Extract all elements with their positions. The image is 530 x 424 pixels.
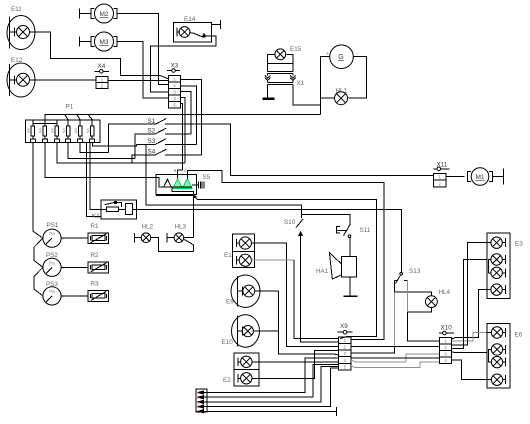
wire S3 left stub	[136, 143, 155, 145]
svg-text:a: a	[174, 168, 177, 174]
switch S13 contact top	[400, 272, 403, 275]
ground at HA1	[343, 295, 357, 297]
wire X1 right leg	[293, 85, 321, 106]
wire X3 pin3 to S2	[180, 92, 191, 134]
connector X10	[440, 337, 452, 363]
wire S3 to S10	[146, 144, 302, 218]
svg-text:G: G	[338, 54, 343, 61]
wire fuse F1 to gauges	[33, 142, 43, 238]
wire X11 to M1	[446, 176, 464, 178]
wire HL3 right	[184, 237, 194, 239]
wire X3 pin2 to S3	[180, 86, 196, 144]
svg-text:P1: P1	[66, 104, 74, 111]
svg-text:E10: E10	[222, 339, 234, 346]
wire X3 pin5 to S5	[178, 104, 183, 179]
wire S11 to horn	[349, 238, 351, 257]
connector X4 locator	[95, 70, 109, 72]
lamp unit E14 box	[174, 22, 212, 42]
connector prong left at S13	[393, 292, 395, 346]
wire X10 pin2 to E3 lamp2	[452, 260, 487, 349]
fuse box P1	[26, 120, 101, 143]
wire S13 to HL4	[394, 280, 431, 295]
wire S5 down to HL3	[192, 194, 194, 237]
connector X3	[169, 75, 181, 108]
wire E12 to X4	[30, 79, 97, 81]
triangle indicator 2 green	[173, 179, 182, 188]
fuse internal jumper	[33, 123, 57, 125]
svg-text:HL3: HL3	[175, 223, 187, 230]
relay K1 resistor	[106, 207, 118, 211]
S5 internal wiring	[156, 177, 163, 187]
svg-text:8A: 8A	[73, 128, 78, 133]
wire E14 terminal	[212, 24, 221, 26]
lamp HL3	[166, 233, 168, 243]
switch S11 blade	[344, 224, 351, 236]
ground at X1	[262, 97, 274, 100]
svg-text:S11: S11	[360, 227, 371, 234]
wire S1 left	[109, 124, 156, 152]
wire S5 triangle3 to X9	[187, 170, 384, 339]
gauge PS1	[43, 229, 61, 247]
wire PS1 to R1	[61, 237, 88, 239]
svg-text:Pa: Pa	[49, 260, 55, 265]
svg-text:HA1: HA1	[316, 268, 329, 275]
svg-text:E2: E2	[223, 377, 231, 384]
svg-text:8A: 8A	[61, 128, 66, 133]
harness wire 1 to X9	[203, 358, 339, 393]
headlight E10	[232, 315, 260, 347]
lamp unit E1 box	[233, 234, 255, 267]
svg-text:M1: M1	[475, 174, 484, 181]
resistor R1	[88, 233, 109, 244]
wire X3 pin1 to S4	[180, 79, 201, 155]
connector X1 plug arrows	[265, 75, 296, 80]
switch S10 blade	[296, 219, 303, 228]
jumper to fuse F6	[88, 115, 92, 120]
terminal M1 right	[492, 176, 503, 178]
wire S5 lever to X9 pin1	[197, 200, 376, 339]
lamp cluster E6 box	[487, 323, 510, 388]
wire PS2 to R2	[61, 266, 88, 268]
wire S1 right to X11	[165, 124, 433, 175]
wire bus P1 to generator	[45, 115, 321, 120]
harness wire 5 terminal	[203, 410, 337, 412]
lamp E15	[275, 49, 286, 60]
lamp E3-2	[491, 254, 502, 265]
motor M1	[471, 168, 489, 186]
wire S10 down to X9	[301, 235, 339, 342]
link E3 lamps 2-3	[488, 260, 491, 273]
wire fuse box to relay K1 lower	[87, 142, 102, 216]
wire S3 right	[165, 143, 197, 145]
wire PS3 to R3	[61, 295, 88, 297]
svg-text:K1: K1	[92, 213, 100, 220]
wire to relay K1 coil	[90, 142, 101, 209]
resistor R2	[88, 262, 109, 273]
lamp E1a	[235, 239, 237, 247]
wire E1a to X9 pin2	[251, 243, 338, 346]
lamp E3-4	[487, 289, 491, 291]
wire K1 to S13	[133, 209, 402, 272]
link E6 lamps 2-3	[489, 349, 492, 362]
wire X10 pin2 to E3 lamp1	[452, 243, 487, 346]
relay K1 contact	[104, 202, 114, 204]
wire HA1 to ground	[349, 277, 351, 296]
switch S13 blade	[396, 275, 401, 284]
switch S11 actuator	[336, 227, 340, 233]
wire fuse F5 to S1	[80, 142, 108, 152]
lamp E6-1	[487, 332, 491, 334]
wire X9 pin4 to X10 pin4	[351, 357, 440, 359]
relay K1 coil	[126, 203, 133, 214]
harness connector box	[196, 389, 207, 412]
svg-text:X4: X4	[98, 63, 106, 70]
svg-text:E11: E11	[11, 6, 22, 13]
wire HL4 to X10	[408, 308, 440, 341]
svg-text:X9: X9	[340, 323, 348, 330]
svg-text:R2: R2	[91, 252, 100, 259]
svg-text:E6: E6	[515, 332, 523, 339]
horn HA1	[341, 257, 356, 278]
connector X11 locator	[434, 168, 450, 170]
svg-text:+: +	[326, 51, 329, 57]
svg-text:HL4: HL4	[439, 289, 451, 296]
svg-text:E1: E1	[224, 252, 232, 259]
svg-text:X1: X1	[297, 80, 305, 87]
jumper to fuse F5	[77, 115, 80, 120]
svg-text:M3: M3	[99, 39, 108, 46]
svg-text:S13: S13	[409, 268, 421, 275]
svg-text:8A: 8A	[50, 128, 55, 133]
headlight E9	[231, 275, 260, 307]
lamp E3-3	[491, 267, 502, 278]
wire E9 right	[255, 290, 279, 292]
wire gauge chain PS1-PS2	[34, 238, 43, 267]
svg-text:8A: 8A	[85, 128, 90, 133]
svg-text:R1: R1	[91, 223, 100, 230]
wire X10 pin1 gray to E6 lamp1	[452, 333, 487, 342]
connector X10 locator	[439, 332, 454, 334]
lamp E6-4	[487, 379, 491, 381]
svg-text:E15: E15	[290, 46, 302, 53]
switch S10 arrow contact	[299, 232, 302, 236]
wire X4 pin1 to X3 pin1	[108, 79, 169, 81]
triangle indicator 3 green	[183, 179, 192, 188]
lamp HL2	[134, 233, 136, 243]
connector X3 locator	[167, 70, 180, 72]
motor M3	[79, 37, 81, 47]
lamp E1b	[235, 256, 237, 265]
lamp unit E2 box	[234, 353, 259, 386]
wire fuse F2 to S5	[45, 142, 156, 177]
svg-text:8A: 8A	[26, 128, 31, 133]
unit S5 box	[156, 175, 197, 195]
wire E14 to X3 pin3	[150, 36, 216, 92]
switch S11 contact	[348, 235, 351, 238]
harness wire 2 to X9	[203, 365, 339, 398]
wire HL1 left	[321, 97, 335, 99]
wire X10 pin3 to E6 link	[452, 351, 487, 354]
lamp E6-3	[491, 356, 502, 367]
wire S4 left	[132, 155, 156, 163]
connector prong hooks S13	[394, 279, 398, 281]
wire fuse F4 to S2	[68, 142, 135, 158]
lamp E14 internal	[176, 28, 178, 37]
wire M3 to X3 pin4	[117, 42, 169, 98]
lamp E6-2	[491, 344, 502, 355]
connector prong right at S13	[407, 280, 409, 312]
svg-text:M2: M2	[99, 11, 108, 18]
svg-text:X10: X10	[441, 325, 453, 332]
wire X3 pin4 to fuse F3	[180, 98, 185, 164]
wire E9/E10 riser to X9 pin3	[279, 291, 339, 355]
motor M2	[79, 9, 81, 19]
svg-text:PS1: PS1	[47, 222, 59, 229]
gauge PS2	[43, 258, 61, 276]
harness wire 3 to X9	[203, 366, 339, 402]
svg-text:E3: E3	[515, 241, 523, 248]
gauge PS3	[43, 287, 61, 305]
wire X9 pin4 gray to X10 pin3	[351, 354, 440, 362]
wire E10 right	[253, 330, 278, 332]
wire G left down to bus	[321, 57, 330, 115]
connector X4	[96, 77, 108, 89]
wire X10 pin1 to E3 lamp4	[452, 290, 487, 339]
wires E15 legs	[268, 54, 275, 71]
green base line S5	[173, 188, 193, 190]
wire S4 right	[165, 154, 201, 156]
relay K1 box	[101, 200, 136, 219]
wire X9 pin3 to S13 prong	[351, 346, 395, 353]
generator G	[330, 45, 354, 69]
wire S10 tap to S11	[302, 214, 350, 223]
S5 right output to pins	[192, 184, 197, 186]
lamp E2a	[237, 358, 239, 367]
wire E2a to X9 pin4	[252, 361, 339, 363]
headlight E11	[7, 16, 35, 50]
svg-text:R3: R3	[91, 281, 100, 288]
jumper to fuse F4	[65, 115, 68, 120]
harness wire 4 to X9	[203, 368, 339, 407]
wire fuse F3 bus	[57, 142, 185, 163]
wire fuse F6 to S3	[92, 142, 136, 146]
resistor R3	[88, 291, 109, 302]
headlight E12	[7, 63, 35, 97]
harness wire arrows	[198, 391, 203, 394]
connector pins symbol at S5	[198, 182, 200, 189]
wire X9 pin5 gray	[351, 362, 440, 368]
svg-text:S10: S10	[284, 219, 296, 226]
lamp E3-1	[487, 242, 491, 244]
wire X1 left leg	[267, 85, 269, 99]
wire E1b riser to X9 pin1	[294, 260, 339, 338]
wire X9 pin2 to X10 pin2	[351, 345, 440, 347]
wire X10 pin4 to E6 lamp4	[452, 360, 487, 380]
wire HL2 right	[151, 238, 194, 252]
lamp HL1	[335, 92, 348, 105]
wire M2 to X3 pin2	[117, 14, 169, 85]
svg-text:HL2: HL2	[142, 223, 154, 230]
connector X9	[339, 337, 351, 370]
svg-text:8A: 8A	[38, 128, 43, 133]
wire E11 to X3 pin1	[30, 32, 169, 79]
lamp cluster E3 box	[487, 233, 510, 298]
connector X9 locator	[338, 331, 353, 333]
connector X1 housing	[268, 71, 293, 73]
fuses F1-F6	[31, 126, 35, 136]
wire G right to HL1	[348, 57, 367, 98]
wire gauge chain PS2-PS3	[34, 267, 43, 296]
S5 lever switch	[156, 194, 194, 195]
lamp E2b	[237, 374, 239, 383]
wire S2 left	[135, 134, 155, 159]
svg-text:Pa: Pa	[49, 231, 55, 236]
connector X11	[433, 173, 446, 187]
wire E1b gray	[251, 259, 294, 261]
switch E14 internal	[190, 32, 193, 34]
svg-text:S5: S5	[203, 174, 211, 181]
svg-text:X3: X3	[171, 63, 179, 70]
wire S2 right	[165, 133, 191, 135]
wire E2b to X9 pin3	[252, 351, 339, 379]
svg-text:Pa: Pa	[49, 289, 55, 294]
lamp HL4	[426, 296, 438, 308]
triangle indicator 1	[164, 179, 172, 187]
